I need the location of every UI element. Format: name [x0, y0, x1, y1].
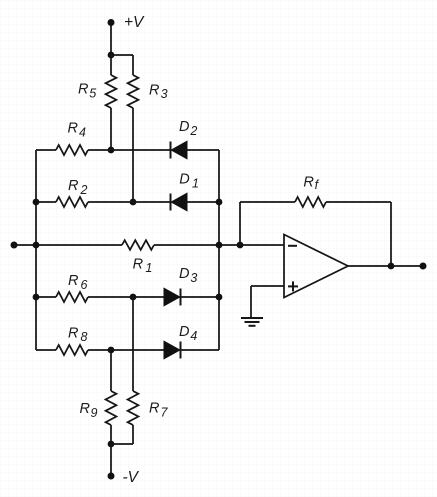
svg-text:D: D	[179, 266, 189, 282]
wire R5-R3 top tie	[111, 54, 133, 56]
wire feedback to Rf	[240, 201, 295, 203]
resistor R2	[56, 197, 88, 207]
resistor R8	[56, 345, 88, 355]
wire input line	[14, 244, 122, 246]
node R7/R6 junction	[130, 294, 137, 301]
op-amp plus sign	[288, 285, 298, 287]
svg-text:R: R	[78, 82, 89, 98]
svg-text:R: R	[133, 256, 144, 272]
resistor R9	[110, 350, 112, 391]
wire left rail	[35, 150, 37, 350]
svg-text:8: 8	[81, 330, 88, 344]
op-amp minus sign	[288, 245, 297, 247]
resistor R6	[56, 292, 88, 302]
node -V terminal	[108, 473, 115, 480]
svg-text:R: R	[68, 121, 79, 137]
node R1 rail junction	[216, 242, 223, 249]
node input/left-rail junction	[33, 242, 40, 249]
resistor R4	[56, 145, 88, 155]
svg-text:R: R	[68, 178, 79, 194]
svg-text:R: R	[149, 401, 160, 417]
wire R3 top lead	[132, 55, 134, 75]
resistor R1	[122, 240, 154, 250]
svg-text:3: 3	[161, 87, 168, 101]
wire bottom tie	[111, 443, 133, 445]
wire -V lead	[110, 444, 112, 476]
svg-text:+V: +V	[124, 14, 145, 31]
svg-text:1: 1	[145, 261, 152, 275]
svg-text:D: D	[179, 324, 189, 340]
wire D1 to right rail	[187, 201, 219, 203]
svg-text:R: R	[68, 273, 79, 289]
wire R4 left lead	[36, 149, 56, 151]
wire feedback up	[239, 202, 241, 245]
wire R8 left lead	[36, 349, 56, 351]
wire R6 to D3	[88, 296, 164, 298]
wire Rf to output column	[326, 201, 391, 203]
svg-text:1: 1	[192, 176, 199, 190]
wire R5 bottom lead	[110, 108, 112, 150]
svg-text:D: D	[179, 172, 189, 188]
wire output	[348, 265, 423, 267]
ground	[241, 317, 263, 319]
wire +V vertical lead	[110, 23, 112, 56]
svg-text:2: 2	[80, 183, 88, 197]
wire to ground	[250, 286, 252, 318]
svg-text:4: 4	[79, 126, 86, 140]
op-amp U1	[284, 235, 348, 298]
diode D4	[164, 341, 180, 359]
wire R2 left lead	[36, 201, 56, 203]
resistor R7	[132, 297, 134, 391]
svg-text:R: R	[68, 325, 79, 341]
svg-text:5: 5	[89, 86, 96, 100]
wire D3 to right rail	[181, 296, 220, 298]
node R2 left junction	[33, 199, 40, 206]
node input terminal	[11, 242, 18, 249]
node R9/R7 bottom junction	[108, 441, 115, 448]
svg-text:R: R	[80, 401, 91, 417]
svg-text:7: 7	[161, 405, 169, 419]
svg-text:-V: -V	[123, 469, 140, 486]
wire R8 to D4	[88, 349, 164, 351]
node D1 rail junction	[216, 199, 223, 206]
wire R3 bottom lead to R2 line	[132, 108, 134, 202]
wire R7 bottom lead	[132, 425, 134, 444]
wire R6 left lead	[36, 296, 56, 298]
diode D1	[170, 194, 172, 211]
node R5/R3 top junction	[108, 52, 115, 59]
wire R9 bottom lead	[110, 425, 112, 444]
wire right rail	[218, 150, 220, 350]
svg-text:3: 3	[190, 271, 197, 285]
node D3 rail junction	[216, 294, 223, 301]
svg-text:2: 2	[189, 124, 197, 138]
diode D3	[164, 288, 180, 306]
svg-text:6: 6	[81, 278, 88, 292]
resistor R3	[128, 75, 139, 108]
node output/feedback junction	[388, 263, 395, 270]
svg-text:R: R	[303, 174, 314, 190]
svg-text:R: R	[149, 82, 160, 98]
node output terminal	[420, 263, 427, 270]
resistor Rf	[295, 197, 326, 207]
svg-text:D: D	[179, 119, 189, 135]
wire noninverting input	[251, 285, 284, 287]
wire R4 to D2	[88, 149, 171, 151]
node R5/R4 junction	[108, 147, 115, 154]
svg-text:f: f	[315, 178, 320, 192]
wire R2 to D1	[88, 201, 171, 203]
node R9/R8 junction	[108, 347, 115, 354]
node feedback junction	[237, 242, 244, 249]
node +V terminal	[108, 19, 115, 26]
diode D2	[170, 142, 172, 159]
svg-text:4: 4	[190, 329, 197, 343]
wire feedback down to output	[390, 202, 392, 266]
wire D2 to right rail	[187, 149, 219, 151]
svg-text:9: 9	[91, 406, 98, 420]
resistor R5	[110, 55, 112, 75]
wire R1 to op-amp inverting input	[154, 244, 284, 246]
node R6 left junction	[33, 294, 40, 301]
wire D4 to right rail	[181, 349, 220, 351]
node R3/R2 junction	[130, 199, 137, 206]
